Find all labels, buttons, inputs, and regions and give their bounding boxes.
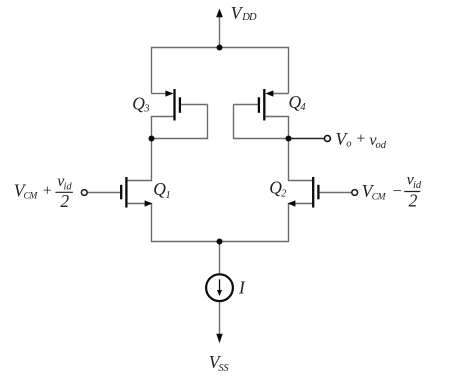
transistor Q2 channel bar [312,177,314,208]
junction dot bottom rail [217,239,223,245]
svg-text:SS: SS [218,363,229,374]
input terminal circle right [352,190,358,196]
svg-text:3: 3 [143,104,149,115]
current source I circle [206,274,233,301]
transistor Q2 gate bar [317,185,319,200]
wire current source to VSS arrow [219,302,221,336]
wire Q3 source lead [152,93,168,95]
wire Q4 gate lead [234,104,259,106]
output terminal circle [324,136,330,142]
wire node B down to Q2 drain [289,139,313,181]
input terminal circle left [81,190,87,196]
wire Q4 diode loop [234,105,289,139]
transistor Q3 channel bar [173,89,175,121]
transistor Q1 source arrow (NMOS, points out of channel) [145,200,153,206]
svg-text:2: 2 [60,191,69,211]
wire bottom rail with side verticals [152,204,289,242]
label VDD [231,3,257,23]
svg-text:2: 2 [409,190,418,210]
transistor Q4 source arrow (PMOS, points into channel) [265,90,273,96]
svg-text:CM: CM [24,191,39,201]
svg-text:CM: CM [372,193,387,203]
transistor Q4 channel bar [263,89,265,121]
wire top rail with left and right drops [152,48,289,94]
svg-text:2: 2 [281,188,287,199]
svg-text:+: + [42,182,53,199]
svg-text:1: 1 [166,190,171,201]
VDD arrowhead [216,9,223,18]
label output: Vo + vod [336,129,387,151]
wire Q1 gate lead [87,192,120,194]
label Q2 [269,178,287,200]
wire Q3 gate lead [181,104,208,106]
svg-text:+: + [355,130,366,147]
wire Q4 source lead [272,93,289,95]
svg-text:o: o [346,139,351,150]
label VSS [209,352,230,374]
svg-text:−: − [392,183,403,200]
transistor Q1 channel bar [125,177,127,208]
wire Q2 source lead [289,203,313,205]
wire Q1 source lead [128,203,152,205]
wire Q4 drain lead and down to node [265,117,288,139]
transistor Q4 gate bar [258,97,260,113]
transistor Q1 gate bar [120,185,122,200]
wire Q3 drain lead and down to node [152,117,174,139]
output wire node B to terminal [289,138,325,140]
wire Q3 diode loop [152,105,208,139]
junction dot top rail [217,45,223,51]
svg-text:DD: DD [241,12,257,23]
label input right: VCM - vid/2 [362,172,422,211]
label Q1 [153,179,170,201]
transistor Q2 source arrow (NMOS, points out of channel) [287,200,295,206]
wire bottom rail to current source [219,242,221,275]
junction node A dot (Q3 drain / Q1 drain) [149,136,155,142]
svg-text:I: I [238,277,246,297]
svg-text:4: 4 [300,102,306,113]
label Q3 [132,93,149,114]
svg-text:Q: Q [153,179,166,199]
VSS arrowhead [216,334,222,343]
wire Q2 gate lead [320,192,352,194]
transistor Q3 gate bar [179,97,181,113]
junction node B dot (Q4 drain / output) [286,136,292,142]
wire VDD stem [219,17,221,48]
label input left: VCM + vid/2 [14,173,73,211]
current source arrow [219,279,221,290]
label Q4 [289,92,307,113]
wire node A down to Q1 drain [128,139,152,181]
transistor Q3 source arrow (PMOS, points into channel) [165,90,173,96]
svg-text:od: od [376,140,387,151]
